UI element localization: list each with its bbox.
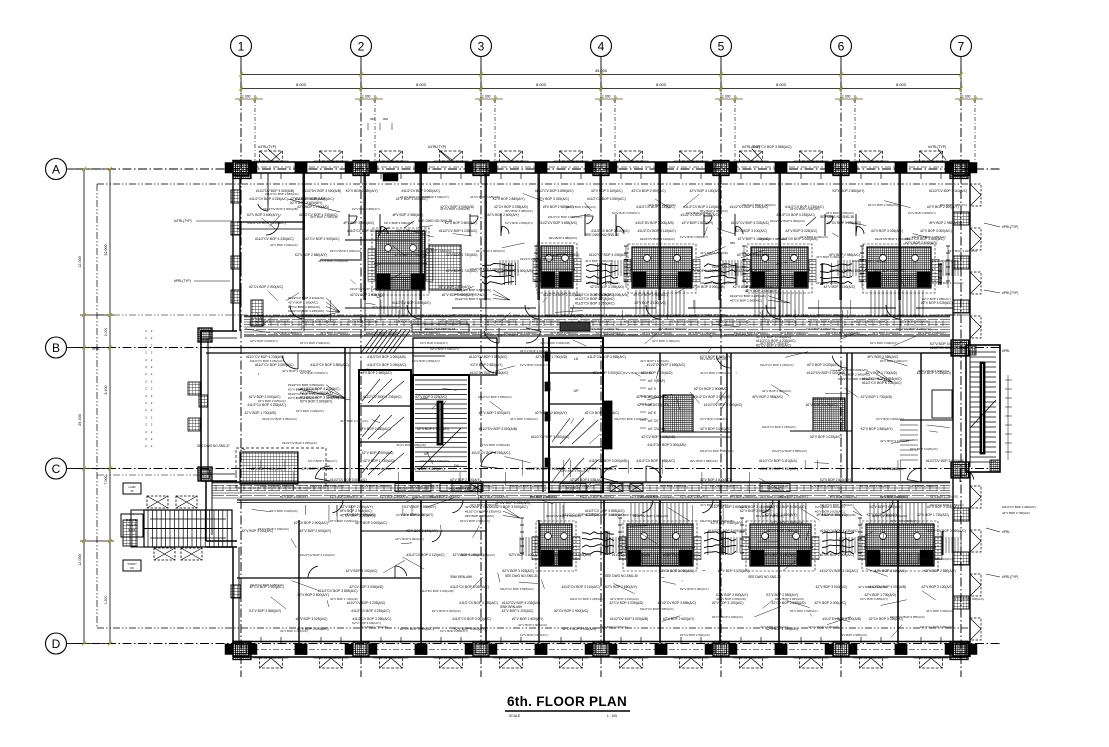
svg-text:1 : 100: 1 : 100 bbox=[607, 714, 617, 718]
svg-text:K2"V BOP 2 880(A/Y): K2"V BOP 2 880(A/Y) bbox=[274, 331, 302, 335]
svg-text:#11/2"CV BOP 4 235(A/C): #11/2"CV BOP 4 235(A/C) bbox=[730, 294, 766, 298]
svg-text:#2"V BOP 2 600(A/Y): #2"V BOP 2 600(A/Y) bbox=[512, 617, 544, 621]
svg-text:42"CV BOP 3 035(A/D): 42"CV BOP 3 035(A/D) bbox=[694, 313, 725, 317]
vertical pipe stubs scatter bbox=[850, 300, 852, 315]
svg-text:#11/2"DV BOP 3 000(A/B): #11/2"DV BOP 3 000(A/B) bbox=[256, 189, 294, 193]
svg-text:UP: UP bbox=[574, 389, 580, 393]
svg-text:42"V BOP 3 000(A/C): 42"V BOP 3 000(A/C) bbox=[495, 505, 528, 509]
bathroom unit top row 2 bbox=[537, 243, 577, 293]
svg-text:#FV BOP 2 985(A/C): #FV BOP 2 985(A/C) bbox=[345, 513, 376, 517]
bottom rooms top wall bbox=[237, 499, 953, 501]
svg-text:1.000: 1.000 bbox=[722, 95, 731, 99]
svg-text:42"V BOP 3 000(A/C): 42"V BOP 3 000(A/C) bbox=[355, 521, 387, 525]
svg-text:#2"V BOP 2 600(A/Y): #2"V BOP 2 600(A/Y) bbox=[300, 529, 332, 533]
stair X boxes above bbox=[147, 496, 168, 508]
svg-text:1.000: 1.000 bbox=[962, 95, 971, 99]
grid line 5 centreline bbox=[720, 66, 722, 677]
bottom row bathroom risers bbox=[543, 503, 545, 524]
svg-text:350: 350 bbox=[370, 117, 375, 121]
svg-text:42"V BOP 3 000(A/C): 42"V BOP 3 000(A/C) bbox=[592, 371, 624, 375]
svg-text:29.400: 29.400 bbox=[78, 414, 82, 426]
svg-text:#11/2"CV BOP 4 235(A/C): #11/2"CV BOP 4 235(A/C) bbox=[282, 441, 317, 445]
svg-text:42"V BOP 1 730(A/D): 42"V BOP 1 730(A/D) bbox=[363, 459, 395, 463]
grid bubble 1 bbox=[231, 36, 252, 57]
svg-text:#11/2"DV BOP 3 000(A/B): #11/2"DV BOP 3 000(A/B) bbox=[647, 443, 685, 447]
svg-text:K2"V BOP 3 600(A/Y): K2"V BOP 3 600(A/Y) bbox=[300, 371, 328, 375]
svg-text:42"V BOP 3 000(A/C): 42"V BOP 3 000(A/C) bbox=[920, 229, 952, 233]
svg-text:42"CV BOP 3 035(A/D): 42"CV BOP 3 035(A/D) bbox=[590, 285, 624, 289]
left service shaft bbox=[123, 520, 137, 546]
right core vents bbox=[552, 418, 570, 442]
svg-text:#11/2"CV BOP 4 235(A/C): #11/2"CV BOP 4 235(A/C) bbox=[636, 205, 674, 209]
svg-text:#2"CV BOP 2 900(A/C): #2"CV BOP 2 900(A/C) bbox=[300, 341, 330, 345]
svg-text:42"V BOP 3 100(A/C): 42"V BOP 3 100(A/C) bbox=[921, 585, 953, 589]
svg-text:#2"V BOP 3 025(A/C): #2"V BOP 3 025(A/C) bbox=[785, 229, 817, 233]
svg-text:#11/2"CV BOP 3 110(A/C): #11/2"CV BOP 3 110(A/C) bbox=[543, 293, 581, 297]
svg-text:#11/2"CV BOP 3 855(A/C): #11/2"CV BOP 3 855(A/C) bbox=[930, 346, 970, 350]
svg-text:#11/2"DV BOP 3 000(A/B): #11/2"DV BOP 3 000(A/B) bbox=[875, 237, 910, 241]
svg-text:#2"V BOP 3 025(A/C): #2"V BOP 3 025(A/C) bbox=[476, 249, 505, 253]
svg-text:K2"V BOP 2 880(A/Y): K2"V BOP 2 880(A/Y) bbox=[680, 235, 708, 239]
svg-text:42"V BOP 3 100(A/C): 42"V BOP 3 100(A/C) bbox=[824, 285, 856, 289]
svg-text:42"V BOP 3 100(A/C): 42"V BOP 3 100(A/C) bbox=[880, 439, 909, 443]
svg-text:42"V BOP 3 000(A/C): 42"V BOP 3 000(A/C) bbox=[518, 623, 547, 627]
svg-text:#2"V BOP 2 600(A/Y): #2"V BOP 2 600(A/Y) bbox=[880, 359, 908, 363]
svg-text:#FV BOP 2 985(A/C): #FV BOP 2 985(A/C) bbox=[549, 236, 577, 240]
svg-text:#11/2"CV BOP 3 050(A/C): #11/2"CV BOP 3 050(A/C) bbox=[587, 197, 625, 201]
svg-text:4: 4 bbox=[598, 40, 605, 54]
top exterior wall bbox=[233, 161, 968, 163]
svg-text:42"V BOP 3 000(A/C): 42"V BOP 3 000(A/C) bbox=[395, 537, 424, 541]
svg-text:K2"V BOP 2 880(A/Y): K2"V BOP 2 880(A/Y) bbox=[380, 495, 408, 499]
svg-text:K2"V BOP 2 880(A/Y): K2"V BOP 2 880(A/Y) bbox=[771, 521, 803, 525]
svg-text:#11/2"CV BOP 4 235(A/C): #11/2"CV BOP 4 235(A/C) bbox=[246, 355, 284, 359]
outside stair arrow bbox=[150, 518, 226, 520]
svg-text:45.000: 45.000 bbox=[595, 68, 608, 73]
svg-text:#11/2"CV BOP 3 855(A/C): #11/2"CV BOP 3 855(A/C) bbox=[539, 221, 577, 225]
svg-text:#11/2"CV BOP 3 110(A/C): #11/2"CV BOP 3 110(A/C) bbox=[578, 320, 612, 324]
grid line 1 centreline bbox=[240, 66, 242, 677]
svg-text:A: A bbox=[52, 163, 60, 177]
right stair tower bbox=[966, 345, 1000, 472]
svg-text:#2"V BOP 2 600(A/Y): #2"V BOP 2 600(A/Y) bbox=[910, 484, 938, 488]
svg-text:#11/2"CV BOP 3 050(A/C): #11/2"CV BOP 3 050(A/C) bbox=[927, 529, 965, 533]
corridor cross boxes bbox=[470, 484, 483, 492]
svg-text:K2"V BOP 2 880(A/Y): K2"V BOP 2 880(A/Y) bbox=[924, 569, 956, 573]
svg-text:42"V BOP 1 730(A/D): 42"V BOP 1 730(A/D) bbox=[688, 331, 716, 335]
svg-text:42"CV BOP 3 035(A/D): 42"CV BOP 3 035(A/D) bbox=[318, 259, 348, 263]
top-left unit internal walls bbox=[237, 221, 304, 223]
svg-text:#FV BOP 2 985(A/C): #FV BOP 2 985(A/C) bbox=[393, 213, 424, 217]
grid line B centreline bbox=[76, 347, 1002, 349]
svg-text:#11/2"CV BOP 4 235(A/C): #11/2"CV BOP 4 235(A/C) bbox=[734, 331, 768, 335]
svg-text:42"V BOP 3 100(A/C): 42"V BOP 3 100(A/C) bbox=[372, 305, 401, 309]
svg-text:12.000: 12.000 bbox=[78, 554, 82, 566]
right core shaft wall bbox=[603, 401, 612, 449]
corridor label boxes bbox=[395, 484, 431, 492]
svg-text:8.000: 8.000 bbox=[296, 82, 307, 87]
svg-text:#11/2"CV BOP 3 110(A/C): #11/2"CV BOP 3 110(A/C) bbox=[458, 331, 492, 335]
svg-text:#FV BOP 2 985(A/C): #FV BOP 2 985(A/C) bbox=[530, 495, 557, 499]
svg-text:#4" V: #4" V bbox=[648, 387, 657, 391]
svg-text:#11/2"CV BOP 3 110(A/C): #11/2"CV BOP 3 110(A/C) bbox=[591, 229, 629, 233]
svg-text:42"CV BOP 3 035(A/D): 42"CV BOP 3 035(A/D) bbox=[480, 443, 510, 447]
svg-text:#11/2"CV BOP 4 235(A/C): #11/2"CV BOP 4 235(A/C) bbox=[439, 229, 477, 233]
svg-text:42"V BOP 3 100(A/C): 42"V BOP 3 100(A/C) bbox=[412, 331, 440, 335]
bathroom dim combs bbox=[499, 260, 501, 276]
middle band partitions right bbox=[659, 353, 661, 482]
svg-text:7.000: 7.000 bbox=[104, 476, 108, 485]
svg-text:K2"V BOP 2 880(A/Y): K2"V BOP 2 880(A/Y) bbox=[820, 478, 851, 482]
svg-text:42"V BOP 1 730(A/D): 42"V BOP 1 730(A/D) bbox=[297, 205, 329, 209]
svg-text:L6: L6 bbox=[574, 357, 578, 361]
svg-text:42"V BOP 1 730(A/D): 42"V BOP 1 730(A/D) bbox=[394, 253, 426, 257]
svg-text:#11/2"CV BOP 3 855(A/C): #11/2"CV BOP 3 855(A/C) bbox=[500, 587, 534, 591]
svg-text:42"V BOP 1 730(A/D): 42"V BOP 1 730(A/D) bbox=[446, 253, 478, 257]
left wing exterior wall B-C bbox=[200, 331, 202, 481]
svg-text:#11/2"CV BOP 3 110(A/C): #11/2"CV BOP 3 110(A/C) bbox=[716, 320, 750, 324]
svg-text:#2"CV BOP 2 900(A/C): #2"CV BOP 2 900(A/C) bbox=[953, 597, 984, 601]
svg-text:#11/2"CV BOP 3 050(A/C): #11/2"CV BOP 3 050(A/C) bbox=[885, 314, 922, 318]
svg-text:42"V BOP 1 730(A/D): 42"V BOP 1 730(A/D) bbox=[244, 411, 276, 415]
svg-text:PORCH: PORCH bbox=[128, 563, 137, 566]
dark blob below wall near grid2 bbox=[383, 173, 398, 181]
svg-text:42"CV BOP 3 035(A/D): 42"CV BOP 3 035(A/D) bbox=[869, 617, 903, 621]
svg-text:#2"CV BOP 2 900(A/C): #2"CV BOP 2 900(A/C) bbox=[520, 349, 551, 353]
svg-text:#11/2"CV BOP 3 855(A/C): #11/2"CV BOP 3 855(A/C) bbox=[647, 363, 685, 367]
svg-text:#11/2"CV BOP 3 855(A/C): #11/2"CV BOP 3 855(A/C) bbox=[302, 320, 336, 324]
svg-text:#11/2"CV BOP 3 110(A/C): #11/2"CV BOP 3 110(A/C) bbox=[572, 313, 607, 317]
svg-text:42"V BOP 3 100(A/C): 42"V BOP 3 100(A/C) bbox=[453, 553, 485, 557]
svg-text:#2"CV BOP 2 900(A/C): #2"CV BOP 2 900(A/C) bbox=[694, 387, 728, 391]
svg-text:#11/2"CV BOP 3 050(A/C): #11/2"CV BOP 3 050(A/C) bbox=[820, 503, 854, 507]
top band unit partition walls bbox=[303, 173, 305, 300]
svg-text:#2"CV BOP 2 900(A/C): #2"CV BOP 2 900(A/C) bbox=[288, 305, 320, 309]
corridor label box dark bbox=[560, 322, 590, 331]
svg-text:K2"V BOP 2 880(A/Y): K2"V BOP 2 880(A/Y) bbox=[680, 495, 708, 499]
svg-text:2: 2 bbox=[358, 40, 365, 54]
svg-text:K2"V BOP 3 600(A/Y): K2"V BOP 3 600(A/Y) bbox=[816, 313, 845, 317]
svg-text:42"V BOP 3 000(A/C): 42"V BOP 3 000(A/C) bbox=[420, 314, 451, 318]
grid line D centreline bbox=[76, 643, 1002, 645]
grid bubble D bbox=[46, 633, 67, 654]
central stair newel bbox=[437, 401, 443, 445]
svg-text:K2"V BOP 2 880(A/Y): K2"V BOP 2 880(A/Y) bbox=[308, 459, 337, 463]
svg-text:#11/2"CV BOP 3 110(A/C): #11/2"CV BOP 3 110(A/C) bbox=[406, 553, 444, 557]
svg-text:#11/2"DV BOP 3 000(A/B): #11/2"DV BOP 3 000(A/B) bbox=[823, 617, 861, 621]
svg-text:42"V BOP 1 730(A/D): 42"V BOP 1 730(A/D) bbox=[535, 355, 567, 359]
lower corridor wall upper bbox=[212, 481, 950, 483]
top band entry stubs bbox=[348, 214, 350, 236]
svg-text:SCALE: SCALE bbox=[509, 714, 521, 718]
svg-text:D: D bbox=[52, 637, 61, 651]
central stair break line bbox=[419, 428, 461, 470]
svg-text:#2"V BOP 3 025(A/C): #2"V BOP 3 025(A/C) bbox=[532, 320, 560, 324]
svg-text:#2"V BOP 2 600(A/Y): #2"V BOP 2 600(A/Y) bbox=[487, 213, 519, 217]
svg-text:42"V BOP 1 730(A/D): 42"V BOP 1 730(A/D) bbox=[868, 467, 900, 471]
svg-text:#FV BOP 2 985(A/C): #FV BOP 2 985(A/C) bbox=[361, 371, 392, 375]
dimension chains vertical scatter bbox=[535, 246, 537, 288]
svg-text:#11/2"CV BOP 4 235(A/C): #11/2"CV BOP 4 235(A/C) bbox=[472, 451, 510, 455]
svg-text:42"V BOP 3 100(A/C): 42"V BOP 3 100(A/C) bbox=[689, 189, 721, 193]
svg-text:#11/2"CV BOP 3 050(A/C): #11/2"CV BOP 3 050(A/C) bbox=[531, 435, 569, 439]
svg-text:#2"CV BOP 2 900(A/C): #2"CV BOP 2 900(A/C) bbox=[767, 529, 801, 533]
svg-text:42"CV BOP 3 035(A/D): 42"CV BOP 3 035(A/D) bbox=[486, 320, 516, 324]
left hall door bbox=[282, 353, 298, 369]
svg-text:#2"V BOP 2 600(A/Y): #2"V BOP 2 600(A/Y) bbox=[280, 495, 308, 499]
grid line 3 centreline bbox=[480, 66, 482, 677]
svg-text:#11/2"CV BOP 3 110(A/C): #11/2"CV BOP 3 110(A/C) bbox=[852, 259, 887, 263]
svg-text:#11/2"CV BOP 4 235(A/C): #11/2"CV BOP 4 235(A/C) bbox=[563, 513, 601, 517]
elevator vents bbox=[362, 379, 380, 401]
svg-text:42"CV BOP 3 035(A/D): 42"CV BOP 3 035(A/D) bbox=[660, 569, 694, 573]
svg-text:#2"V BOP 2 600(A/Y): #2"V BOP 2 600(A/Y) bbox=[745, 289, 777, 293]
vestibule walls top left bbox=[303, 173, 305, 230]
svg-text:RD: RD bbox=[130, 567, 134, 570]
svg-text:#11/2"CV BOP 3 050(A/C): #11/2"CV BOP 3 050(A/C) bbox=[255, 363, 293, 367]
svg-text:#2"CV BOP 2 900(A/C): #2"CV BOP 2 900(A/C) bbox=[634, 293, 668, 297]
svg-text:42"V BOP 3 100(A/C): 42"V BOP 3 100(A/C) bbox=[735, 229, 767, 233]
svg-text:#11/2"CV BOP 3 050(A/C): #11/2"CV BOP 3 050(A/C) bbox=[504, 331, 538, 335]
svg-text:42"CV BOP 3 035(A/D): 42"CV BOP 3 035(A/D) bbox=[827, 221, 861, 225]
svg-text:#11/2"CV BOP 4 235(A/C): #11/2"CV BOP 4 235(A/C) bbox=[459, 601, 497, 605]
svg-text:#11/2"DV BOP 3 000(A/B): #11/2"DV BOP 3 000(A/B) bbox=[303, 189, 341, 193]
svg-text:#2"V BOP 3 025(A/C): #2"V BOP 3 025(A/C) bbox=[432, 609, 461, 613]
svg-text:#11/2"CV BOP 4 235(A/C): #11/2"CV BOP 4 235(A/C) bbox=[808, 320, 842, 324]
svg-text:#11/2"CV BOP 4 235(A/C): #11/2"CV BOP 4 235(A/C) bbox=[762, 320, 796, 324]
svg-text:#PRL(TYP): #PRL(TYP) bbox=[174, 279, 191, 283]
corridor diagonal pipe fan bbox=[361, 330, 378, 353]
svg-text:#11/2"CV BOP 3 855(A/C): #11/2"CV BOP 3 855(A/C) bbox=[310, 484, 344, 488]
svg-text:42"V BOP 3 100(A/C): 42"V BOP 3 100(A/C) bbox=[689, 269, 721, 273]
svg-text:#11/2"CV BOP 3 050(A/C): #11/2"CV BOP 3 050(A/C) bbox=[700, 449, 734, 453]
svg-text:42"V BOP 3 100(A/C): 42"V BOP 3 100(A/C) bbox=[712, 601, 744, 605]
svg-text:#11/2"CV BOP 3 855(A/C): #11/2"CV BOP 3 855(A/C) bbox=[392, 301, 430, 305]
left boundary centreline vertical bbox=[96, 184, 98, 628]
svg-text:#11/2"CV BOP 3 110(A/C): #11/2"CV BOP 3 110(A/C) bbox=[562, 585, 600, 589]
svg-text:42"V BOP 3 100(A/C): 42"V BOP 3 100(A/C) bbox=[288, 300, 318, 304]
svg-text:#11/2"CV BOP 3 110(A/C): #11/2"CV BOP 3 110(A/C) bbox=[247, 221, 285, 225]
landing label box bbox=[123, 483, 141, 494]
svg-text:K2"V BOP 3 600(A/Y): K2"V BOP 3 600(A/Y) bbox=[900, 320, 928, 324]
svg-text:42"V BOP 3 100(A/C): 42"V BOP 3 100(A/C) bbox=[591, 189, 623, 193]
svg-text:1.000: 1.000 bbox=[362, 95, 371, 99]
svg-text:K2"V BOP 2 880(A/Y): K2"V BOP 2 880(A/Y) bbox=[860, 597, 888, 601]
left exterior wall lower bbox=[232, 547, 234, 643]
svg-text:K2"V BOP 3 600(A/Y): K2"V BOP 3 600(A/Y) bbox=[700, 417, 728, 421]
svg-text:42"V BOP 1 730(A/D): 42"V BOP 1 730(A/D) bbox=[766, 627, 798, 631]
svg-text:#11/2"CV BOP 4 235(A/C): #11/2"CV BOP 4 235(A/C) bbox=[731, 221, 769, 225]
svg-text:42"CV BOP 3 035(A/D): 42"CV BOP 3 035(A/D) bbox=[917, 371, 951, 375]
svg-text:42"V BOP 3 100(A/C): 42"V BOP 3 100(A/C) bbox=[340, 419, 368, 423]
svg-text:900: 900 bbox=[383, 117, 388, 121]
svg-text:#FV BOP 2 985(A/C): #FV BOP 2 985(A/C) bbox=[344, 221, 375, 225]
svg-text:#11/2"CV BOP 3 050(A/C): #11/2"CV BOP 3 050(A/C) bbox=[367, 363, 405, 367]
svg-text:#2"V BOP 2 600(A/Y): #2"V BOP 2 600(A/Y) bbox=[737, 253, 769, 257]
svg-text:#11/2"CV BOP 3 300(A/C): #11/2"CV BOP 3 300(A/C) bbox=[1002, 505, 1036, 509]
svg-text:#11/2"CV BOP 3 855(A/C): #11/2"CV BOP 3 855(A/C) bbox=[920, 625, 954, 629]
svg-text:#11/2"CV BOP 4 235(A/C): #11/2"CV BOP 4 235(A/C) bbox=[820, 529, 858, 533]
bottom band doors bbox=[330, 500, 343, 513]
svg-text:42"V BOP 3 000(A/C): 42"V BOP 3 000(A/C) bbox=[636, 395, 668, 399]
svg-text:42"CV BOP 3 035(A/D): 42"CV BOP 3 035(A/D) bbox=[396, 443, 426, 447]
svg-text:42"V BOP 1 730(A/D): 42"V BOP 1 730(A/D) bbox=[930, 495, 958, 499]
bathroom unit bottom row 1 bbox=[536, 521, 576, 571]
bathroom unit bottom row 4 bbox=[862, 521, 938, 571]
lower corridor pipe run bbox=[212, 482, 950, 484]
svg-text:B: B bbox=[52, 341, 60, 355]
svg-text:#11/2"CV BOP 3 855(A/C): #11/2"CV BOP 3 855(A/C) bbox=[588, 355, 626, 359]
svg-text:K2"V BOP 3 600(A/Y): K2"V BOP 3 600(A/Y) bbox=[716, 593, 748, 597]
right exterior wall bbox=[952, 173, 954, 643]
svg-text:42"V BOP 1 730(A/D): 42"V BOP 1 730(A/D) bbox=[760, 484, 788, 488]
grid bubble C bbox=[46, 458, 67, 479]
bottom wall column blocks bbox=[233, 642, 249, 657]
svg-text:42"V BOP 3 000(A/C): 42"V BOP 3 000(A/C) bbox=[670, 320, 698, 324]
bathroom unit top row 1 bbox=[372, 228, 429, 295]
svg-text:K2"V BOP 2 880(A/Y): K2"V BOP 2 880(A/Y) bbox=[520, 633, 548, 637]
top wall infill piers bbox=[295, 163, 307, 174]
svg-text:#11/2"DV BOP 3 000(A/B): #11/2"DV BOP 3 000(A/B) bbox=[420, 589, 454, 593]
svg-text:K2"V BOP 3 600(A/Y): K2"V BOP 3 600(A/Y) bbox=[610, 484, 638, 488]
svg-text:#2"V BOP 2 600(A/Y): #2"V BOP 2 600(A/Y) bbox=[663, 617, 695, 621]
svg-text:#11/2"CV BOP 3 050(A/C): #11/2"CV BOP 3 050(A/C) bbox=[767, 505, 805, 509]
top row bathroom risers bbox=[379, 290, 381, 317]
svg-text:#2"V BOP 3 025(A/C): #2"V BOP 3 025(A/C) bbox=[270, 509, 298, 513]
svg-text:#4"RL(TYP): #4"RL(TYP) bbox=[742, 145, 760, 149]
svg-text:#11/2"CV BOP 3 050(A/C): #11/2"CV BOP 3 050(A/C) bbox=[770, 219, 805, 223]
svg-text:42"V BOP 3 100(A/C): 42"V BOP 3 100(A/C) bbox=[872, 331, 900, 335]
svg-text:K2"V BOP 2 880(A/Y): K2"V BOP 2 880(A/Y) bbox=[908, 211, 936, 215]
svg-text:42"V BOP 3 100(A/C): 42"V BOP 3 100(A/C) bbox=[652, 339, 680, 343]
svg-text:K2"V BOP 2 880(A/Y): K2"V BOP 2 880(A/Y) bbox=[733, 285, 765, 289]
svg-text:#11/2"DV BOP 3 000(A/B): #11/2"DV BOP 3 000(A/B) bbox=[263, 207, 298, 211]
svg-text:K2"V BOP 2 880(A/Y): K2"V BOP 2 880(A/Y) bbox=[401, 513, 433, 517]
svg-text:K2"V BOP 2 880(A/Y): K2"V BOP 2 880(A/Y) bbox=[832, 189, 864, 193]
svg-text:42"CV BOP 3 035(A/D): 42"CV BOP 3 035(A/D) bbox=[350, 293, 384, 297]
svg-text:#2"V BOP 3 025(A/C): #2"V BOP 3 025(A/C) bbox=[600, 625, 628, 629]
svg-text:K2"V BOP 2 880(A/Y): K2"V BOP 2 880(A/Y) bbox=[930, 259, 958, 263]
svg-text:42"V BOP 1 730(A/D): 42"V BOP 1 730(A/D) bbox=[360, 625, 388, 629]
svg-text:42"V BOP 3 100(A/C): 42"V BOP 3 100(A/C) bbox=[738, 237, 770, 241]
left exterior wall upper bbox=[232, 173, 234, 331]
bathroom unit bottom row 2 bbox=[623, 521, 697, 571]
svg-text:#11/2"DV BOP 3 000(A/B): #11/2"DV BOP 3 000(A/B) bbox=[614, 417, 648, 421]
window mullion stubs top bbox=[260, 173, 262, 179]
svg-text:#11/2"CV BOP 3 855(A/C): #11/2"CV BOP 3 855(A/C) bbox=[469, 355, 507, 359]
svg-text:#11/2"CV BOP 4 235(A/C): #11/2"CV BOP 4 235(A/C) bbox=[776, 213, 814, 217]
svg-text:#2"V BOP 2 600(A/Y): #2"V BOP 2 600(A/Y) bbox=[870, 341, 898, 345]
svg-text:6th. FLOOR PLAN: 6th. FLOOR PLAN bbox=[507, 694, 627, 709]
svg-text:K2"V BOP 3 600(A/Y): K2"V BOP 3 600(A/Y) bbox=[509, 553, 541, 557]
middle right room walls bbox=[921, 352, 953, 354]
svg-text:#4"RL(TYP): #4"RL(TYP) bbox=[174, 219, 192, 223]
svg-text:K2"V BOP 2 880(A/Y): K2"V BOP 2 880(A/Y) bbox=[352, 207, 380, 211]
right wall piers and canopies bbox=[953, 212, 969, 225]
svg-text:#2"V BOP 3 025(A/C): #2"V BOP 3 025(A/C) bbox=[330, 519, 358, 523]
svg-text:42"V BOP 3 100(A/C): 42"V BOP 3 100(A/C) bbox=[874, 569, 906, 573]
svg-text:K2"V BOP 2 880(A/Y): K2"V BOP 2 880(A/Y) bbox=[412, 359, 440, 363]
svg-text:#11/2"DV BOP 3 000(A/B): #11/2"DV BOP 3 000(A/B) bbox=[868, 585, 906, 589]
svg-text:K2"V BOP 2 880(A/Y): K2"V BOP 2 880(A/Y) bbox=[471, 363, 503, 367]
svg-text:42"V BOP 3 000(A/C): 42"V BOP 3 000(A/C) bbox=[814, 601, 846, 605]
svg-text:#2"CV BOP 2 900(A/C): #2"CV BOP 2 900(A/C) bbox=[624, 320, 654, 324]
svg-text:#11/2"DV BOP 3 000(A/B): #11/2"DV BOP 3 000(A/B) bbox=[256, 320, 290, 324]
svg-text:42"CV BOP 3 035(A/D): 42"CV BOP 3 035(A/D) bbox=[348, 320, 378, 324]
svg-text:#4" K: #4" K bbox=[648, 411, 657, 415]
svg-text:#FV BOP 2 985(A/C): #FV BOP 2 985(A/C) bbox=[543, 205, 574, 209]
svg-text:#11/2"CV BOP 4 235(A/C): #11/2"CV BOP 4 235(A/C) bbox=[460, 484, 494, 488]
svg-text:K2"V BOP 3 600(A/Y): K2"V BOP 3 600(A/Y) bbox=[250, 339, 278, 343]
svg-text:42"V BOP 3 100(A/C): 42"V BOP 3 100(A/C) bbox=[395, 229, 427, 233]
svg-text:#11/2"DV BOP 3 000(A/B): #11/2"DV BOP 3 000(A/B) bbox=[636, 221, 674, 225]
svg-text:#11/2"CV BOP 3 110(A/C): #11/2"CV BOP 3 110(A/C) bbox=[759, 459, 797, 463]
svg-text:42"V BOP 3 000(A/C): 42"V BOP 3 000(A/C) bbox=[816, 585, 848, 589]
svg-text:#2"V BOP 2 600(A/Y): #2"V BOP 2 600(A/Y) bbox=[927, 205, 959, 209]
svg-text:#11/2"CV BOP 3 855(A/C): #11/2"CV BOP 3 855(A/C) bbox=[772, 449, 807, 453]
svg-text:K2"V BOP 3 600(A/Y): K2"V BOP 3 600(A/Y) bbox=[410, 484, 438, 488]
svg-text:42"V BOP 3 000(A/C): 42"V BOP 3 000(A/C) bbox=[396, 197, 428, 201]
right tower top/bottom blocks bbox=[966, 345, 976, 355]
svg-text:6: 6 bbox=[838, 40, 845, 54]
svg-text:#2"V BOP 3 025(A/C): #2"V BOP 3 025(A/C) bbox=[297, 627, 329, 631]
svg-text:42"V BOP 3 000(A/C): 42"V BOP 3 000(A/C) bbox=[550, 331, 578, 335]
svg-text:8.000: 8.000 bbox=[896, 82, 907, 87]
svg-text:#PRL(TYP): #PRL(TYP) bbox=[1002, 225, 1018, 229]
grid bubble 5 bbox=[711, 36, 732, 57]
svg-text:42"V BOP 3 000(A/C): 42"V BOP 3 000(A/C) bbox=[510, 417, 538, 421]
svg-text:#11/2"CV BOP 3 855(A/C): #11/2"CV BOP 3 855(A/C) bbox=[535, 189, 573, 193]
svg-text:8.000: 8.000 bbox=[776, 82, 787, 87]
grid line A centreline bbox=[76, 168, 1002, 170]
svg-text:#11/2"CV BOP 3 110(A/C): #11/2"CV BOP 3 110(A/C) bbox=[854, 320, 888, 324]
svg-text:#2"CV BOP 2 900(A/C): #2"CV BOP 2 900(A/C) bbox=[460, 519, 490, 523]
top wall window canopies bbox=[260, 151, 283, 161]
svg-text:#11/2"CV BOP 3 855(A/C): #11/2"CV BOP 3 855(A/C) bbox=[260, 484, 294, 488]
svg-text:#4"RL(TYP): #4"RL(TYP) bbox=[428, 145, 446, 149]
svg-text:#11/2"CV BOP 4 235(A/C): #11/2"CV BOP 4 235(A/C) bbox=[560, 484, 594, 488]
svg-text:#11/2"DV BOP 3 000(A/B): #11/2"DV BOP 3 000(A/B) bbox=[612, 553, 650, 557]
svg-text:K2"V BOP 3 600(A/Y): K2"V BOP 3 600(A/Y) bbox=[394, 320, 422, 324]
svg-text:#FV BOP 2 985(A/C): #FV BOP 2 985(A/C) bbox=[465, 514, 494, 518]
top dimension line bays bbox=[241, 88, 961, 90]
svg-text:#2"CV BOP 2 900(A/C): #2"CV BOP 2 900(A/C) bbox=[632, 189, 666, 193]
svg-text:#2"V BOP 2 600(A/Y): #2"V BOP 2 600(A/Y) bbox=[300, 400, 332, 404]
svg-text:#PRL: #PRL bbox=[1002, 530, 1010, 534]
svg-text:42"V BOP 3 100(A/C): 42"V BOP 3 100(A/C) bbox=[764, 553, 796, 557]
svg-text:#2"CV BOP 2 900(A/C): #2"CV BOP 2 900(A/C) bbox=[585, 411, 619, 415]
grid bubble B bbox=[46, 337, 67, 358]
svg-text:#PRL(TYP): #PRL(TYP) bbox=[1002, 575, 1018, 579]
svg-text:1.000: 1.000 bbox=[602, 95, 611, 99]
svg-text:#11/2"CV BOP 3 110(A/C): #11/2"CV BOP 3 110(A/C) bbox=[694, 395, 732, 399]
svg-text:SEE DWG NO.SNS-38: SEE DWG NO.SNS-38 bbox=[820, 215, 854, 219]
bathroom unit top row 4 bbox=[747, 244, 812, 293]
top band suite walls near grid2 bbox=[345, 239, 421, 241]
svg-text:#FV BOP 2 985(A/C): #FV BOP 2 985(A/C) bbox=[730, 495, 757, 499]
svg-text:1: 1 bbox=[238, 40, 245, 54]
svg-text:#FV BOP 2 985(A/C): #FV BOP 2 985(A/C) bbox=[817, 513, 848, 517]
svg-text:#2"V BOP 2 600(A/Y): #2"V BOP 2 600(A/Y) bbox=[918, 331, 946, 335]
svg-text:#11/2"DV BOP 3 000(A/B): #11/2"DV BOP 3 000(A/B) bbox=[510, 484, 544, 488]
svg-text:42"CV BOP 3 035(A/D): 42"CV BOP 3 035(A/D) bbox=[641, 435, 675, 439]
svg-text:SEE DWG NO.SNS-37: SEE DWG NO.SNS-37 bbox=[197, 444, 230, 448]
svg-text:#11/2"CV BOP 3 855(A/C): #11/2"CV BOP 3 855(A/C) bbox=[710, 505, 748, 509]
svg-text:#2"V BOP 2 600(A/Y): #2"V BOP 2 600(A/Y) bbox=[439, 285, 471, 289]
svg-text:350: 350 bbox=[730, 241, 735, 245]
svg-text:#2"V BOP 3 025(A/C): #2"V BOP 3 025(A/C) bbox=[296, 617, 328, 621]
svg-text:8.000: 8.000 bbox=[536, 82, 547, 87]
